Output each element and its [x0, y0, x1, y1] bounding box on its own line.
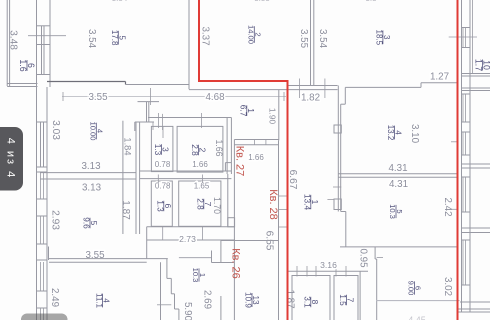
svg-text:9.00: 9.00 — [407, 281, 416, 296]
svg-text:3.13: 3.13 — [81, 161, 101, 172]
svg-text:4.68: 4.68 — [205, 92, 225, 103]
svg-text:1.70: 1.70 — [212, 197, 222, 214]
svg-text:Кв. 28: Кв. 28 — [267, 189, 279, 220]
svg-text:2.8: 2.8 — [190, 144, 200, 156]
svg-text:9.6: 9.6 — [82, 217, 92, 229]
svg-text:Кв. 27: Кв. 27 — [234, 146, 246, 177]
svg-text:11.1: 11.1 — [94, 293, 103, 309]
svg-text:14.00: 14.00 — [246, 25, 255, 44]
svg-text:1.7: 1.7 — [474, 59, 484, 71]
svg-text:3.55: 3.55 — [85, 250, 105, 261]
svg-text:3.37: 3.37 — [200, 26, 211, 45]
svg-text:2.8: 2.8 — [195, 198, 205, 210]
svg-text:1.66: 1.66 — [214, 139, 224, 156]
svg-text:1.84: 1.84 — [122, 137, 132, 155]
svg-text:4.45: 4.45 — [408, 315, 426, 320]
svg-text:3.5: 3.5 — [365, 0, 377, 3]
svg-text:3.55: 3.55 — [88, 92, 108, 103]
svg-text:10.3: 10.3 — [388, 204, 397, 219]
svg-text:3.55: 3.55 — [298, 29, 309, 49]
svg-text:13.2: 13.2 — [386, 125, 395, 141]
svg-text:1.82: 1.82 — [301, 92, 320, 103]
svg-text:1.5: 1.5 — [338, 294, 348, 306]
svg-text:3.03: 3.03 — [50, 120, 61, 140]
svg-text:2.49: 2.49 — [49, 288, 60, 307]
svg-text:2.69: 2.69 — [202, 290, 213, 309]
svg-text:1.87: 1.87 — [285, 289, 296, 308]
svg-text:3.54: 3.54 — [112, 0, 128, 3]
svg-text:1.6: 1.6 — [18, 59, 28, 71]
svg-text:2.42: 2.42 — [442, 197, 453, 216]
svg-text:5.90: 5.90 — [182, 302, 193, 320]
svg-text:3.1: 3.1 — [302, 296, 312, 308]
svg-text:1.87: 1.87 — [120, 200, 131, 220]
svg-text:1.66: 1.66 — [248, 153, 264, 162]
svg-text:1.3: 1.3 — [153, 144, 163, 156]
svg-text:2.93: 2.93 — [49, 210, 60, 230]
svg-text:13.4: 13.4 — [302, 194, 312, 211]
svg-text:3.55: 3.55 — [254, 0, 270, 3]
svg-text:Кв. 26: Кв. 26 — [230, 248, 242, 279]
svg-text:3.48: 3.48 — [7, 30, 18, 50]
svg-text:4.31: 4.31 — [388, 163, 407, 174]
svg-text:10.3: 10.3 — [191, 268, 200, 283]
svg-text:1.65: 1.65 — [194, 182, 210, 191]
svg-text:18.5: 18.5 — [375, 30, 384, 46]
svg-text:0.78: 0.78 — [155, 182, 171, 191]
svg-text:0.78: 0.78 — [155, 160, 171, 169]
svg-text:3.10: 3.10 — [409, 124, 420, 144]
svg-text:0.95: 0.95 — [358, 248, 369, 268]
svg-text:1.3: 1.3 — [155, 200, 165, 212]
svg-text:1.66: 1.66 — [192, 160, 208, 169]
svg-text:1.27: 1.27 — [430, 71, 449, 82]
svg-text:6.7: 6.7 — [238, 105, 248, 117]
svg-text:1.90: 1.90 — [268, 108, 278, 125]
svg-text:4.31: 4.31 — [389, 179, 408, 190]
svg-text:4 из 4: 4 из 4 — [5, 138, 17, 180]
svg-text:17.8: 17.8 — [110, 30, 119, 46]
svg-text:3.16: 3.16 — [320, 260, 337, 270]
svg-text:2.73: 2.73 — [179, 234, 196, 244]
svg-text:6.67: 6.67 — [287, 170, 298, 190]
svg-text:10.9: 10.9 — [244, 292, 253, 308]
svg-text:10.00: 10.00 — [88, 121, 97, 140]
svg-text:3.54: 3.54 — [317, 29, 328, 49]
svg-text:3.02: 3.02 — [442, 277, 453, 296]
svg-text:3.54: 3.54 — [86, 29, 97, 49]
svg-text:3.13: 3.13 — [82, 182, 102, 193]
